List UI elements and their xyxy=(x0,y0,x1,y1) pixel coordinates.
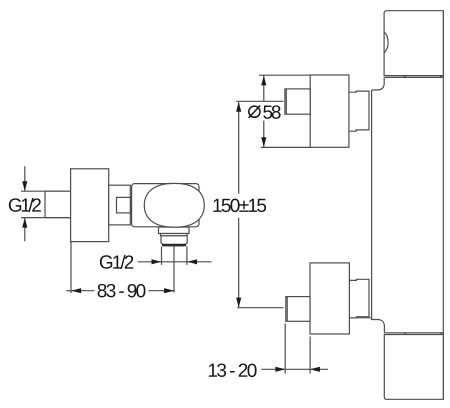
svg-text:13 - 20: 13 - 20 xyxy=(207,361,257,382)
svg-text:58: 58 xyxy=(262,103,281,124)
svg-text:G1/2: G1/2 xyxy=(99,253,135,274)
svg-text:150±15: 150±15 xyxy=(212,196,267,217)
svg-text:G1/2: G1/2 xyxy=(8,196,42,217)
svg-text:83 - 90: 83 - 90 xyxy=(97,281,147,302)
